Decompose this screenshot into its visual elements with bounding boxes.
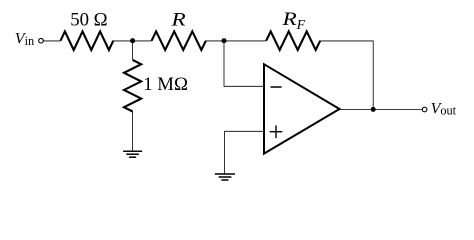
wire node B down to inverting input (224, 41, 263, 87)
op-amp plus sign (270, 125, 283, 138)
resistor R (152, 31, 206, 50)
wire node A down (132, 41, 134, 60)
wire R1 to R (113, 40, 151, 42)
terminal Vout (422, 107, 427, 112)
svg-text:Vout: Vout (431, 100, 457, 117)
ground G1 (123, 151, 142, 157)
svg-text:1 MΩ: 1 MΩ (143, 74, 188, 95)
svg-text:Vin: Vin (15, 31, 34, 48)
node B (222, 38, 227, 43)
terminal Vin (39, 38, 44, 43)
node A (130, 38, 135, 43)
wire RF to right corner down to output node (320, 41, 373, 109)
svg-text:50 Ω: 50 Ω (70, 10, 107, 31)
wire op-amp output to terminal (340, 108, 423, 110)
op-amp U1 triangle (264, 64, 340, 153)
svg-text:R: R (170, 10, 186, 31)
resistor R2 1Mohm vertical (124, 60, 141, 112)
resistor RF (266, 31, 320, 50)
wire R2 to ground (132, 112, 134, 152)
node output (371, 107, 376, 112)
wire noninverting input to ground (225, 131, 264, 173)
wire R to RF (206, 40, 266, 42)
wire Vin to R1 (43, 40, 60, 42)
resistor R1 50ohm (61, 31, 114, 50)
ground G2 (215, 174, 235, 180)
op-amp minus sign (271, 86, 282, 88)
